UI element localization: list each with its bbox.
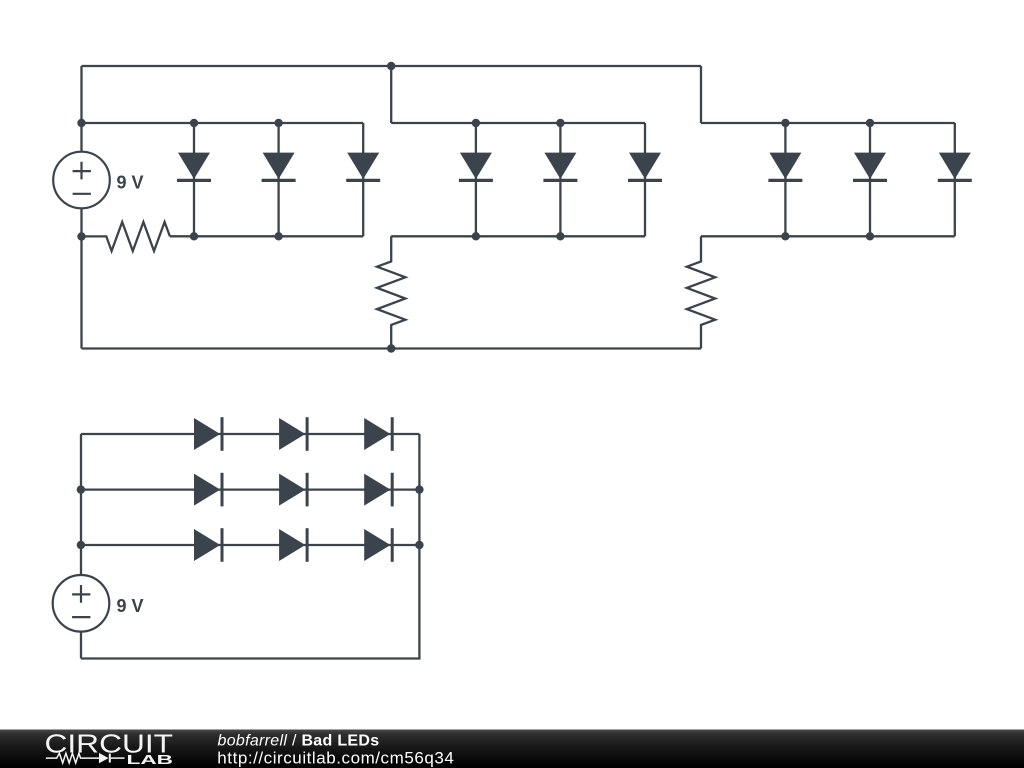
footer url text [217,748,454,767]
CircuitLab logo LAB text [127,752,174,767]
node D2 anode [274,119,282,127]
svg-text:bobfarrell / Bad LEDs: bobfarrell / Bad LEDs [218,732,380,749]
LED D15 [364,473,392,507]
LED D13 [194,473,222,507]
node D8 cathode [866,232,874,240]
node top rail junction [387,62,395,70]
node D7 cathode [781,232,789,240]
node right row3 [415,541,423,549]
wire group3 cathode rail [701,235,955,237]
LED D16 [194,528,222,562]
wire group2 cathode rail [391,235,645,237]
resistor R2 [377,236,405,348]
LED D6 [628,123,662,236]
LED D2 [262,123,296,236]
node D1 cathode [190,232,198,240]
wire V1 top lead [80,66,82,152]
svg-text:9 V: 9 V [117,173,144,193]
LED D14 [279,473,307,507]
node left row3 [77,541,85,549]
footer bar [0,730,1024,768]
svg-text:http://circuitlab.com/cm56q34: http://circuitlab.com/cm56q34 [217,748,454,767]
wire V2 bottom lead [80,632,82,659]
wire row2 [81,488,420,490]
resistor R3 [687,236,715,348]
wire V2 top lead [80,434,82,575]
CircuitLab logo diode glyph [99,753,125,763]
wire V1 bottom lead [80,208,82,348]
CircuitLab logo CIRCUIT text [45,730,174,758]
node V1 minus junction [77,232,85,240]
LED D10 [194,417,222,451]
node bottom rail R2 junction [387,344,395,352]
node D1 anode [190,119,198,127]
wire group2 anode rail [391,122,645,124]
node D4 cathode [472,232,480,240]
svg-text:LAB: LAB [127,752,174,767]
voltage source V2 9V [53,575,144,632]
LED D5 [543,123,577,236]
LED D17 [279,528,307,562]
LED D3 [346,123,380,236]
node D2 cathode [274,232,282,240]
LED D8 [853,123,887,236]
wire row3 [81,544,420,546]
LED D4 [459,123,493,236]
wire group3 drop [700,66,702,123]
wire group1 anode rail [82,122,364,124]
CircuitLab logo resistor glyph [46,753,99,763]
node D5 anode [556,119,564,127]
node D7 anode [781,119,789,127]
svg-text:9 V: 9 V [117,596,144,616]
wire top rail [82,65,702,67]
node D4 anode [472,119,480,127]
wire bottom rail [82,347,702,349]
voltage source V1 9V [53,152,143,209]
node right row2 [415,485,423,493]
LED D12 [364,417,392,451]
node group1 anode left [77,119,85,127]
LED D7 [768,123,802,236]
wire row1 [81,433,420,435]
node D8 anode [866,119,874,127]
footer title text bobfarrell / Bad LEDs [218,732,380,749]
resistor R1 [82,222,170,251]
node left row2 [77,485,85,493]
wire bottom return [81,434,419,659]
wire group3 anode rail [701,122,955,124]
LED D18 [364,528,392,562]
node D5 cathode [556,232,564,240]
LED D9 [938,123,972,236]
LED D1 [177,123,211,236]
wire top rail to group2 [390,66,392,123]
LED D11 [279,417,307,451]
wire group1 cathode rail [170,235,363,237]
